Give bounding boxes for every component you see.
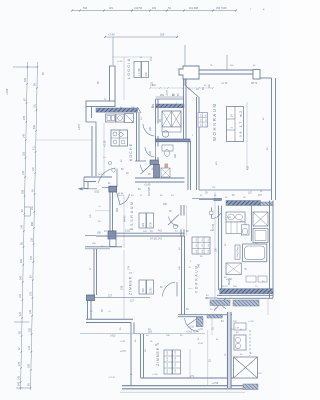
svg-text:1413: 1413 [110,335,116,338]
svg-text:46: 46 [204,85,207,87]
svg-text:28: 28 [205,192,208,195]
svg-text:107: 107 [258,195,263,197]
svg-text:90: 90 [198,337,200,340]
svg-text:318: 318 [121,285,124,290]
svg-text:LOGGIA: LOGGIA [127,58,131,79]
svg-text:26: 26 [150,341,153,343]
svg-text:41: 41 [130,374,133,376]
svg-text:216: 216 [208,239,210,242]
svg-text:148: 148 [23,133,26,138]
svg-text:34: 34 [141,117,143,120]
svg-text:20C: 20C [149,126,152,131]
svg-text:DU WB: DU WB [147,187,151,196]
svg-text:275: 275 [18,361,21,366]
svg-text:148: 148 [21,224,24,229]
svg-text:96 34: 96 34 [118,195,124,197]
svg-text:100: 100 [149,150,152,155]
svg-text:774: 774 [128,265,131,270]
svg-text:107: 107 [258,373,262,375]
svg-text:ZIMMER 2: ZIMMER 2 [129,272,133,295]
svg-text:205: 205 [160,33,165,37]
svg-text:+2.40: +2.40 [108,33,115,37]
svg-text:2: 2 [192,135,194,137]
svg-text:96: 96 [160,195,163,197]
svg-text:34: 34 [150,231,153,233]
svg-text:217: 217 [108,295,113,298]
svg-text:263: 263 [206,114,208,117]
svg-text:+2.40: +2.40 [144,184,151,187]
svg-text:95: 95 [42,72,45,75]
svg-text:98.72: 98.72 [251,82,258,85]
svg-text:46: 46 [214,195,217,197]
svg-text:90: 90 [196,89,199,91]
svg-text:+2.40: +2.40 [117,61,123,63]
svg-text:28: 28 [243,197,246,199]
svg-text:216: 216 [202,239,204,242]
svg-text:590: 590 [83,7,88,10]
svg-text:216: 216 [202,250,204,253]
svg-text:150: 150 [30,237,33,242]
svg-text:217: 217 [130,300,135,303]
svg-text:46: 46 [232,195,235,197]
svg-text:87: 87 [18,347,21,350]
svg-text:161 988: 161 988 [189,7,199,10]
svg-text:540: 540 [33,124,36,129]
svg-text:90: 90 [169,211,172,213]
svg-text:90: 90 [240,354,243,356]
svg-text:271: 271 [190,375,195,378]
svg-text:+2.8: +2.8 [189,326,194,329]
svg-text:64: 64 [216,339,219,341]
svg-text:420: 420 [19,311,22,316]
svg-text:181: 181 [33,103,36,108]
svg-text:148: 148 [179,266,181,270]
svg-text:253: 253 [201,119,203,122]
svg-text:140: 140 [22,170,25,175]
svg-text:181: 181 [109,7,114,10]
svg-text:118: 118 [19,294,22,298]
svg-text:161: 161 [113,231,117,233]
svg-text:68: 68 [178,93,180,96]
svg-text:186: 186 [216,247,218,252]
svg-text:+5: +5 [98,206,101,208]
svg-text:461: 461 [158,230,163,233]
svg-text:105: 105 [90,214,92,218]
svg-text:540: 540 [17,381,20,386]
svg-text:5: 5 [189,266,192,268]
svg-text:96: 96 [186,231,189,233]
svg-text:90: 90 [202,87,205,90]
svg-text:54: 54 [140,57,143,59]
svg-text:281: 281 [160,94,165,97]
svg-text:98.17 m2: 98.17 m2 [239,111,243,137]
svg-text:96: 96 [180,335,183,337]
svg-text:274: 274 [201,114,203,117]
svg-text:80: 80 [121,169,124,171]
svg-text:161: 161 [31,205,34,210]
svg-text:46: 46 [196,331,199,333]
svg-text:105: 105 [163,204,168,206]
svg-text:223: 223 [206,124,208,127]
svg-text:+8.75: +8.75 [167,89,169,96]
svg-text:1011: 1011 [94,190,100,193]
svg-text:5: 5 [190,261,192,263]
svg-text:34 161 341: 34 161 341 [150,238,163,241]
svg-text:21: 21 [108,183,111,185]
svg-text:1312: 1312 [125,230,131,233]
svg-text:46: 46 [263,117,265,120]
svg-text:34: 34 [145,349,147,352]
svg-text:64: 64 [206,295,209,297]
svg-text:62: 62 [225,243,227,246]
svg-text:90: 90 [135,339,137,342]
svg-text:95: 95 [34,83,37,86]
svg-text:95: 95 [27,383,30,386]
svg-text:34: 34 [126,173,129,175]
svg-text:46: 46 [225,197,228,199]
svg-text:46: 46 [253,65,256,67]
svg-text:+5: +5 [108,311,111,313]
svg-text:87: 87 [90,267,92,270]
svg-text:80: 80 [138,189,141,191]
svg-text:87: 87 [21,209,24,212]
svg-text:90: 90 [160,287,163,289]
svg-text:75: 75 [244,269,247,271]
svg-text:546: 546 [198,263,201,268]
svg-text:340: 340 [144,72,148,77]
svg-text:95: 95 [20,242,23,245]
svg-text:+2.67: +2.67 [120,351,127,353]
svg-text:4: 4 [263,9,265,12]
svg-text:+2.6: +2.6 [198,328,203,331]
svg-text:325: 325 [28,327,31,332]
svg-text:180: 180 [97,232,102,235]
svg-text:54: 54 [31,189,34,192]
svg-text:94-90: 94-90 [124,215,127,222]
svg-text:34: 34 [175,231,178,233]
svg-text:14: 14 [230,114,234,118]
svg-text:+3.18: +3.18 [104,140,107,147]
svg-text:+2.63 +2: +2.63 +2 [186,330,196,333]
svg-text:+2.5 41: +2.5 41 [108,377,116,379]
svg-text:318: 318 [142,288,145,293]
svg-text:90: 90 [200,195,203,197]
svg-text:90 75: 90 75 [222,286,228,288]
svg-text:VORRAUM: VORRAUM [195,266,199,293]
svg-text:148: 148 [17,375,20,380]
svg-text:10.02: 10.02 [198,343,204,345]
svg-text:300: 300 [28,363,31,368]
svg-text:80: 80 [131,195,134,197]
svg-text:216: 216 [196,239,198,242]
svg-text:325: 325 [22,151,25,156]
svg-text:74: 74 [210,65,213,67]
svg-text:411754: 411754 [134,7,143,10]
svg-text:+2.56: +2.56 [152,374,158,376]
svg-text:988: 988 [31,221,34,226]
svg-text:216: 216 [202,244,204,247]
svg-text:90: 90 [250,353,253,355]
svg-text:21: 21 [140,195,143,197]
svg-text:75: 75 [255,286,258,288]
svg-text:233: 233 [201,124,203,127]
svg-text:64: 64 [236,332,239,334]
svg-text:ESSRAUM: ESSRAUM [130,202,134,230]
svg-text:+0.95: +0.95 [6,88,9,95]
svg-text:WOHNRAUM: WOHNRAUM [212,104,217,142]
svg-text:216: 216 [208,244,210,247]
svg-text:96: 96 [200,256,203,258]
svg-text:7: 7 [250,9,252,12]
svg-text:181: 181 [32,166,35,171]
svg-text:TW: TW [172,107,175,109]
svg-text:54: 54 [168,7,171,10]
svg-text:80: 80 [121,159,123,162]
svg-text:243: 243 [206,119,208,122]
svg-text:34: 34 [146,335,149,337]
svg-text:216: 216 [208,250,210,253]
svg-text:1730: 1730 [150,221,153,227]
svg-text:28: 28 [260,191,263,193]
svg-text:64: 64 [221,321,224,323]
svg-text:181: 181 [208,83,211,88]
svg-text:216: 216 [196,244,198,247]
svg-text:13: 13 [104,231,107,233]
svg-text:540: 540 [24,77,27,82]
svg-text:AR: AR [173,154,177,158]
svg-text:34: 34 [171,195,174,197]
svg-text:150 7348: 150 7348 [216,7,227,10]
svg-text:90: 90 [90,311,93,313]
svg-text:164: 164 [233,286,237,288]
svg-text:25: 25 [209,359,212,362]
svg-text:216: 216 [196,250,198,253]
svg-text:+2.56: +2.56 [212,382,219,385]
svg-text:L 1760: L 1760 [137,68,141,76]
svg-text:415: 415 [216,161,218,165]
svg-text:88: 88 [267,147,269,150]
svg-text:1292: 1292 [150,287,153,293]
svg-text:411: 411 [32,146,35,150]
svg-text:180: 180 [92,243,96,245]
svg-text:390: 390 [116,207,119,212]
svg-text:275: 275 [29,291,32,296]
svg-text:87: 87 [30,275,33,278]
svg-text:87: 87 [23,98,26,101]
svg-text:107: 107 [248,192,253,195]
svg-text:BM: BM [228,217,231,219]
svg-text:90: 90 [98,221,101,223]
svg-text:62 186: 62 186 [213,223,215,231]
svg-text:107: 107 [212,187,216,189]
svg-text:150: 150 [230,65,234,67]
svg-text:+2.56: +2.56 [226,279,233,281]
svg-text:+2.82: +2.82 [120,341,126,343]
svg-text:95: 95 [120,327,122,330]
svg-text:108: 108 [166,335,170,337]
svg-text:321: 321 [142,222,145,227]
svg-text:90: 90 [186,309,189,311]
svg-text:95: 95 [97,81,100,84]
svg-text:481: 481 [152,85,157,87]
svg-text:140: 140 [28,345,31,350]
svg-text:303: 303 [230,329,234,331]
svg-text:300: 300 [21,189,24,194]
svg-text:148: 148 [29,309,32,314]
svg-text:95: 95 [101,309,104,312]
svg-text:KÜCHE: KÜCHE [129,143,133,161]
svg-text:90: 90 [159,119,162,122]
svg-text:34 96: 34 96 [118,193,124,195]
svg-text:+2.74: +2.74 [221,82,228,85]
svg-text:+2.56: +2.56 [248,321,254,323]
svg-text:734: 734 [30,255,33,260]
svg-text:262: 262 [20,258,23,263]
svg-text:96: 96 [148,174,151,176]
svg-text:340: 340 [20,275,23,280]
svg-text:95: 95 [210,309,213,311]
svg-text:+4.97: +4.97 [78,123,81,130]
svg-text:95: 95 [18,331,21,334]
svg-text:26: 26 [225,353,227,356]
svg-text:181: 181 [152,7,157,10]
svg-text:275: 275 [23,115,26,120]
svg-text:90: 90 [179,247,181,250]
svg-text:105: 105 [143,231,147,233]
svg-text:415: 415 [247,165,250,170]
